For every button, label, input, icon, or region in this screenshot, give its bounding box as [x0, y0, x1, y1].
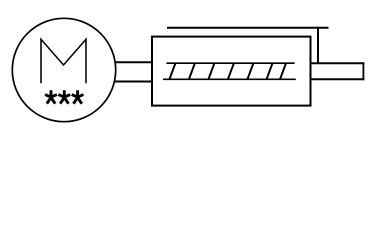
- output shaft bottom line: [312, 78, 365, 80]
- screw hatch diagonal 4: [228, 63, 234, 79]
- motor M1 (circle body): [12, 18, 115, 121]
- screw hatch diagonal 2: [189, 63, 195, 79]
- screw hatch diagonal 5: [247, 63, 253, 79]
- screw hatch diagonal 6: [267, 63, 273, 79]
- screw hatch diagonal 3: [208, 63, 214, 79]
- screw hatch top line: [166, 62, 294, 64]
- screw hatch diagonal 7: [280, 63, 286, 79]
- housing rectangle: [152, 37, 311, 106]
- frame top line: [167, 27, 329, 29]
- winding marks ***: [45, 90, 83, 104]
- output shaft end cap: [362, 62, 364, 80]
- screw hatch diagonal 1: [169, 63, 175, 79]
- output shaft top line: [312, 62, 365, 64]
- screw hatch bottom line: [163, 78, 296, 80]
- motor letter M: [41, 39, 86, 82]
- shaft coupling lower line: [115, 81, 153, 83]
- frame vertical drop: [317, 27, 319, 63]
- shaft coupling upper line: [115, 61, 153, 63]
